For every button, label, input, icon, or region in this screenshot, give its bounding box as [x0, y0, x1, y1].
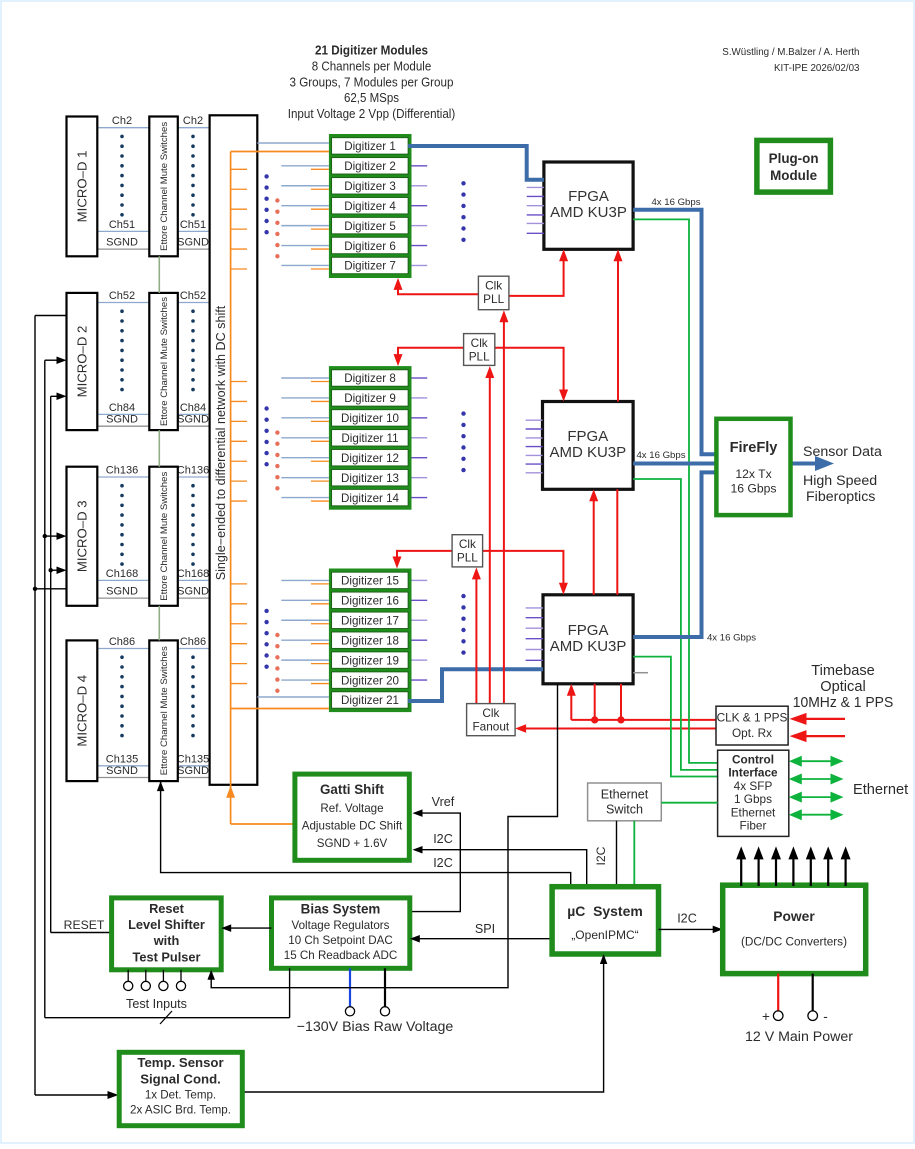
svg-text:Gatti Shift: Gatti Shift: [320, 782, 385, 797]
svg-text:10MHz & 1 PPS: 10MHz & 1 PPS: [793, 695, 894, 711]
svg-text:−130V Bias Raw Voltage: −130V Bias Raw Voltage: [297, 1019, 454, 1035]
svg-text:Optical: Optical: [820, 679, 865, 695]
svg-text:Ch135: Ch135: [177, 753, 209, 765]
svg-text:16 Gbps: 16 Gbps: [730, 482, 776, 496]
svg-text:Digitizer 15: Digitizer 15: [341, 575, 399, 588]
svg-text:Ethernet: Ethernet: [601, 788, 649, 802]
svg-text:I2C: I2C: [594, 846, 608, 865]
svg-text:Plug-on: Plug-on: [769, 151, 819, 166]
svg-text:4x 16 Gbps: 4x 16 Gbps: [707, 633, 756, 644]
svg-text:Digitizer 20: Digitizer 20: [341, 674, 399, 687]
svg-text:Opt. Rx: Opt. Rx: [732, 726, 772, 740]
svg-text:RESET: RESET: [64, 918, 105, 932]
svg-text:Ettore Channel Mute Switches: Ettore Channel Mute Switches: [159, 646, 170, 775]
svg-text:Single−ended to differential n: Single−ended to differential network wit…: [214, 305, 228, 580]
svg-text:Fiber: Fiber: [740, 819, 767, 833]
svg-text:Ch2: Ch2: [183, 115, 203, 127]
svg-text:Clk: Clk: [459, 537, 476, 551]
svg-text:PLL: PLL: [457, 551, 478, 565]
svg-text:12 V Main Power: 12 V Main Power: [745, 1029, 853, 1045]
svg-text:21 Digitizer Modules: 21 Digitizer Modules: [315, 43, 428, 58]
svg-text:-: -: [823, 1009, 828, 1024]
svg-text:Ettore Channel Mute Switches: Ettore Channel Mute Switches: [159, 122, 170, 251]
svg-text:Digitizer 11: Digitizer 11: [341, 432, 398, 445]
svg-text:Ch86: Ch86: [109, 636, 135, 648]
svg-text:Reset: Reset: [149, 901, 185, 916]
svg-text:Ch168: Ch168: [177, 568, 209, 580]
svg-text:AMD KU3P: AMD KU3P: [549, 444, 626, 461]
svg-text:Ch135: Ch135: [106, 753, 138, 765]
svg-text:SGND: SGND: [106, 237, 138, 249]
svg-text:10 Ch Setpoint DAC: 10 Ch Setpoint DAC: [288, 934, 392, 947]
svg-text:Digitizer 1: Digitizer 1: [344, 140, 396, 153]
svg-text:Test Inputs: Test Inputs: [126, 997, 187, 1011]
svg-text:AMD KU3P: AMD KU3P: [550, 638, 627, 655]
svg-text:Ch2: Ch2: [112, 115, 132, 127]
svg-text:Ethernet: Ethernet: [853, 782, 908, 798]
svg-text:Digitizer 12: Digitizer 12: [341, 452, 399, 465]
svg-text:Clk: Clk: [471, 336, 488, 350]
svg-text:Digitizer 9: Digitizer 9: [344, 392, 396, 405]
svg-text:MICRO–D 4: MICRO–D 4: [74, 675, 89, 747]
svg-text:SGND + 1.6V: SGND + 1.6V: [317, 837, 388, 850]
svg-text:I2C: I2C: [677, 912, 697, 926]
svg-text:FPGA: FPGA: [568, 622, 609, 639]
svg-text:1 Gbps: 1 Gbps: [734, 792, 772, 806]
svg-text:Signal Cond.: Signal Cond.: [140, 1071, 221, 1086]
svg-text:Digitizer 19: Digitizer 19: [341, 654, 399, 667]
svg-text:1x Det. Temp.: 1x Det. Temp.: [145, 1089, 216, 1102]
svg-text:8 Channels per Module: 8 Channels per Module: [312, 58, 432, 73]
svg-text:Digitizer 5: Digitizer 5: [344, 220, 396, 233]
svg-text:Digitizer 17: Digitizer 17: [341, 614, 399, 627]
svg-text:FPGA: FPGA: [568, 188, 609, 205]
svg-text:KIT-IPE 2026/02/03: KIT-IPE 2026/02/03: [774, 63, 860, 74]
svg-text:Digitizer 4: Digitizer 4: [344, 200, 396, 213]
svg-text:12x Tx: 12x Tx: [735, 467, 771, 481]
svg-text:Fanout: Fanout: [472, 720, 509, 734]
svg-text:Temp. Sensor: Temp. Sensor: [137, 1055, 223, 1070]
svg-text:15 Ch Readback ADC: 15 Ch Readback ADC: [284, 949, 397, 962]
svg-text:Module: Module: [770, 168, 817, 183]
svg-text:3 Groups, 7 Modules per Group: 3 Groups, 7 Modules per Group: [290, 74, 454, 89]
svg-text:SPI: SPI: [475, 922, 495, 936]
svg-text:SGND: SGND: [177, 586, 209, 598]
svg-text:PLL: PLL: [483, 292, 504, 306]
svg-text:FireFly: FireFly: [730, 440, 779, 456]
svg-text:Ettore Channel Mute Switches: Ettore Channel Mute Switches: [159, 472, 170, 601]
svg-text:4x 16 Gbps: 4x 16 Gbps: [651, 197, 700, 208]
svg-text:Digitizer 2: Digitizer 2: [344, 160, 396, 173]
svg-text:I2C: I2C: [433, 832, 453, 846]
svg-text:Ch84: Ch84: [180, 402, 206, 414]
svg-text:Sensor Data: Sensor Data: [803, 444, 882, 460]
svg-text:Ch168: Ch168: [106, 568, 138, 580]
svg-text:Interface: Interface: [728, 766, 778, 780]
svg-text:„OpenIPMC“: „OpenIPMC“: [571, 928, 638, 942]
svg-text:Clk: Clk: [485, 279, 502, 293]
svg-text:MICRO–D 3: MICRO–D 3: [74, 500, 89, 572]
svg-text:I2C: I2C: [433, 856, 453, 870]
svg-text:Digitizer 13: Digitizer 13: [341, 472, 399, 485]
svg-text:FPGA: FPGA: [567, 428, 608, 445]
svg-text:Voltage Regulators: Voltage Regulators: [292, 919, 390, 932]
svg-text:AMD KU3P: AMD KU3P: [550, 204, 627, 221]
svg-text:(DC/DC Converters): (DC/DC Converters): [741, 935, 847, 949]
svg-text:with: with: [153, 933, 180, 948]
svg-text:62,5 MSps: 62,5 MSps: [344, 90, 399, 105]
svg-text:4x 16 Gbps: 4x 16 Gbps: [636, 450, 685, 461]
svg-text:SGND: SGND: [177, 765, 209, 777]
svg-text:Digitizer 10: Digitizer 10: [341, 412, 399, 425]
svg-text:SGND: SGND: [106, 765, 138, 777]
svg-text:Ettore Channel Mute Switches: Ettore Channel Mute Switches: [159, 297, 170, 426]
svg-text:Digitizer 18: Digitizer 18: [341, 634, 399, 647]
svg-text:Digitizer 3: Digitizer 3: [344, 180, 396, 193]
svg-text:Ch86: Ch86: [180, 636, 206, 648]
svg-text:Test Pulser: Test Pulser: [132, 949, 200, 964]
svg-text:Ch136: Ch136: [106, 465, 138, 477]
svg-text:SGND: SGND: [177, 237, 209, 249]
svg-text:Timebase: Timebase: [811, 663, 875, 679]
svg-text:Digitizer 7: Digitizer 7: [344, 260, 396, 273]
svg-text:S.Wüstling / M.Balzer / A. Her: S.Wüstling / M.Balzer / A. Herth: [722, 47, 859, 58]
svg-text:Ch51: Ch51: [180, 219, 206, 231]
svg-text:Input Voltage 2 Vpp (Different: Input Voltage 2 Vpp (Differential): [288, 106, 456, 121]
svg-text:MICRO–D 1: MICRO–D 1: [74, 150, 89, 222]
svg-text:Switch: Switch: [606, 803, 643, 817]
svg-text:Digitizer 8: Digitizer 8: [344, 372, 396, 385]
svg-text:Ch51: Ch51: [109, 219, 135, 231]
svg-text:CLK & 1 PPS: CLK & 1 PPS: [717, 711, 788, 725]
svg-text:Ch52: Ch52: [180, 290, 206, 302]
svg-text:PLL: PLL: [469, 350, 490, 364]
svg-text:Level Shifter: Level Shifter: [128, 917, 205, 932]
svg-text:Ch136: Ch136: [177, 465, 209, 477]
svg-text:µC System: µC System: [567, 904, 643, 919]
svg-text:Control: Control: [732, 753, 774, 767]
svg-text:4x SFP: 4x SFP: [734, 779, 773, 793]
svg-text:Power: Power: [773, 909, 815, 924]
svg-text:High Speed: High Speed: [803, 473, 877, 489]
svg-text:Digitizer 14: Digitizer 14: [341, 492, 400, 505]
svg-text:Clk: Clk: [482, 706, 499, 720]
svg-text:Fiberoptics: Fiberoptics: [806, 489, 875, 505]
svg-text:2x ASIC Brd. Temp.: 2x ASIC Brd. Temp.: [130, 1104, 231, 1117]
svg-text:Ref. Voltage: Ref. Voltage: [320, 802, 383, 815]
svg-text:Digitizer 6: Digitizer 6: [344, 240, 396, 253]
svg-text:+: +: [762, 1009, 770, 1024]
svg-text:Ch84: Ch84: [109, 402, 135, 414]
svg-text:Digitizer 16: Digitizer 16: [341, 595, 399, 608]
svg-text:Adjustable DC Shift: Adjustable DC Shift: [302, 820, 403, 833]
svg-text:MICRO–D 2: MICRO–D 2: [74, 326, 89, 398]
svg-text:Ethernet: Ethernet: [731, 805, 776, 819]
svg-text:Vref: Vref: [432, 795, 455, 809]
svg-text:Digitizer 21: Digitizer 21: [341, 694, 399, 707]
svg-text:Ch52: Ch52: [109, 290, 135, 302]
svg-text:SGND: SGND: [106, 586, 138, 598]
svg-text:SGND: SGND: [177, 414, 209, 426]
svg-text:SGND: SGND: [106, 414, 138, 426]
svg-text:Bias System: Bias System: [301, 902, 381, 917]
